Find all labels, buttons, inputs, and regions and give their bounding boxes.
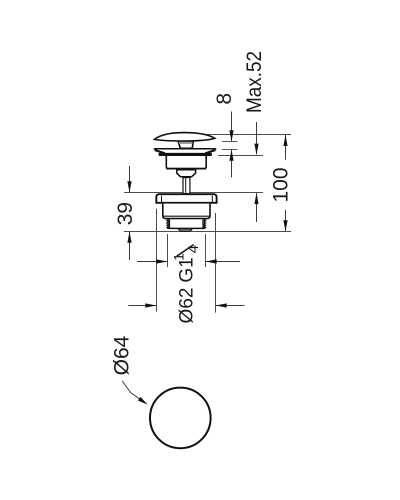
cup bottom line — [166, 168, 206, 170]
dimension G1 1/4 right arrow — [206, 259, 217, 263]
thread right root line — [202, 219, 204, 228]
valve body — [163, 204, 210, 219]
dimension 100 lower arrow — [283, 220, 287, 231]
dimension Ø62 right arrow — [216, 303, 227, 307]
dimension 8 lower arrow — [229, 150, 233, 161]
cap underside shadow — [179, 142, 193, 144]
leader line Ø64 — [122, 381, 146, 403]
svg-text:Max.52: Max.52 — [243, 51, 266, 113]
svg-text:8: 8 — [213, 93, 236, 105]
svg-text:39: 39 — [114, 202, 137, 225]
dimension G1 1/4 left arrow — [156, 259, 167, 263]
extension line flange right x=215.5 — [215, 213, 217, 313]
thread right zigzag — [204, 219, 206, 228]
extension line thread bottom y=231.5 — [124, 231, 291, 233]
body inner line — [163, 215, 210, 217]
flange left corner tick — [161, 196, 163, 203]
valve cap dome — [154, 133, 214, 141]
dimension Max.52 lower arrow — [254, 193, 258, 204]
svg-text:Ø62: Ø62 — [177, 288, 198, 324]
dimension 100 upper arrow — [283, 135, 287, 146]
cap top view circle Ø64 — [150, 388, 211, 449]
seal disc right lip — [205, 150, 215, 153]
dimension 39 upper tail — [129, 166, 131, 192]
threaded pipe — [168, 219, 205, 228]
fraction slash of 1/4 — [177, 245, 194, 257]
tick cap underside y=141.5 — [222, 141, 238, 143]
valve upper cup — [166, 156, 206, 169]
extension line flange left x=156.5 — [156, 209, 158, 312]
tick disc top y=149.5 — [222, 149, 238, 151]
mounting flange — [156, 194, 216, 203]
dimension 39 upper arrow — [127, 181, 131, 192]
flange right corner tick — [211, 196, 213, 203]
extension line deck plane y=192.5 — [124, 192, 263, 194]
dimension 8 lower tail — [231, 150, 233, 178]
thread bottom line — [167, 227, 205, 229]
dimension Max.52 upper arrow — [254, 144, 258, 155]
extension line top reference y=134.5 — [206, 134, 291, 136]
dimension 100 lower segment — [285, 210, 287, 232]
extension line seal bottom y=155.5 — [218, 155, 263, 157]
dimension G1 1/4 right tail — [206, 261, 240, 263]
svg-text:Ø64: Ø64 — [111, 335, 134, 375]
dimension 8 upper tail — [231, 112, 233, 142]
dimension Ø62 left arrow — [145, 303, 156, 307]
seal disc top plate — [154, 148, 217, 150]
extension line thread left x=167.5 — [167, 234, 169, 267]
dimension 8 upper arrow — [229, 130, 233, 141]
stem tube — [183, 178, 190, 194]
thread left root line — [169, 219, 171, 228]
dimension 39 lower tail — [129, 232, 131, 260]
bell shoulder — [177, 170, 196, 177]
dimension G1 1/4 left tail — [137, 261, 167, 263]
seal disc left lip — [155, 150, 165, 153]
seal rubber band — [159, 153, 213, 156]
dimension 100 upper segment — [285, 135, 287, 160]
stem inner line — [185, 178, 187, 194]
svg-text:1: 1 — [171, 253, 186, 261]
dimension Ø62 right tail — [216, 305, 245, 307]
svg-text:4: 4 — [185, 245, 202, 253]
dimension Ø62 left tail — [128, 305, 156, 307]
dimension 39 lower arrow — [127, 232, 131, 243]
dimension Max.52 upper tail — [256, 122, 258, 154]
svg-text:100: 100 — [269, 167, 292, 202]
extension line thread right x=205.5 — [205, 234, 207, 267]
leader arrow Ø64 — [138, 397, 148, 405]
cap neck — [178, 142, 193, 149]
thread left zigzag — [167, 219, 169, 228]
dimension Max.52 lower tail — [256, 193, 258, 222]
bottom cap plug — [178, 229, 192, 231]
